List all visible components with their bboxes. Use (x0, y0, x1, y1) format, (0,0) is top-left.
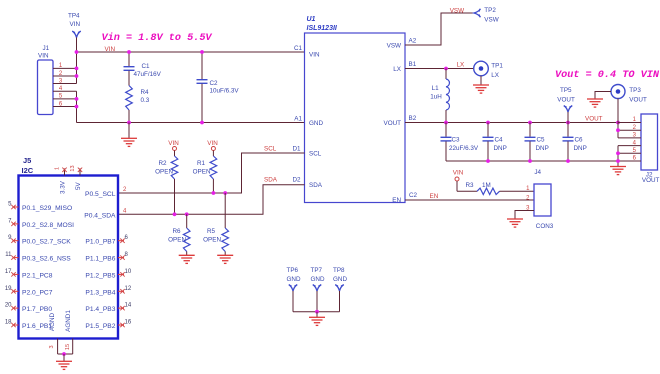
wire LX net (405, 68, 474, 70)
svg-text:R5: R5 (207, 228, 216, 235)
wire J2 pins 4-6 tie to ground (617, 146, 619, 167)
svg-text:C3: C3 (452, 137, 461, 144)
svg-text:J1: J1 (43, 45, 50, 52)
svg-text:OPEN: OPEN (168, 237, 186, 244)
ground (J5) (63, 354, 65, 361)
svg-text:B1: B1 (409, 61, 417, 68)
svg-text:P0.3_S2.6_NSS: P0.3_S2.6_NSS (22, 256, 71, 263)
svg-text:C1: C1 (142, 63, 151, 70)
svg-text:TP4: TP4 (68, 13, 80, 20)
svg-text:D2: D2 (292, 177, 301, 184)
svg-text:P0.4_SDA: P0.4_SDA (84, 212, 116, 219)
svg-text:P1.7_PB0: P1.7_PB0 (22, 306, 52, 313)
svg-text:VOUT: VOUT (629, 97, 647, 104)
wire SCL net (118, 153, 305, 193)
svg-text:C5: C5 (537, 137, 546, 144)
svg-text:13: 13 (70, 165, 76, 171)
wire TP6 (292, 291, 294, 312)
svg-text:TP2: TP2 (484, 7, 496, 14)
svg-text:VOUT: VOUT (557, 97, 575, 104)
svg-text:P0.5_SCL: P0.5_SCL (85, 191, 116, 198)
resistor R2 (174, 151, 176, 157)
svg-text:GND: GND (309, 120, 323, 127)
connector J5 I2C (19, 176, 119, 339)
svg-text:U1: U1 (307, 16, 316, 23)
svg-text:1uH: 1uH (430, 94, 442, 101)
svg-text:16: 16 (125, 320, 132, 326)
svg-text:DNP: DNP (494, 145, 507, 152)
svg-text:P0.1_S29_MISO: P0.1_S29_MISO (22, 205, 72, 212)
svg-text:VIN: VIN (38, 53, 49, 60)
test point TP4 (72, 31, 80, 37)
resistor R6 (186, 214, 188, 228)
svg-text:0.3: 0.3 (141, 97, 150, 104)
capacitor C1 (128, 52, 130, 66)
svg-text:J4: J4 (534, 169, 541, 176)
J5 top pin 1 (3.3V) (64, 169, 66, 176)
svg-text:C2: C2 (409, 192, 418, 199)
svg-text:VIN: VIN (105, 46, 116, 53)
wire TP5 to VOUT rail (567, 112, 569, 123)
junction dots GND rail (127, 121, 131, 125)
ground (TP1) (480, 76, 482, 85)
svg-text:I2C: I2C (22, 166, 34, 175)
connector J2 (641, 114, 658, 170)
svg-text:VSW: VSW (484, 17, 498, 24)
junction dots VIN rail (127, 50, 131, 54)
svg-text:VIN: VIN (168, 140, 179, 147)
svg-text:VIN: VIN (453, 170, 464, 177)
wire J2 pins 1-3 tie (617, 123, 619, 138)
svg-text:VSW: VSW (450, 8, 464, 15)
junction dot LX (444, 67, 448, 71)
svg-text:14: 14 (125, 303, 132, 309)
svg-text:CON3: CON3 (536, 223, 554, 230)
wire TP4 to VIN rail and J1 pins 1-3 (76, 38, 78, 84)
svg-text:SCL: SCL (264, 146, 277, 153)
svg-text:Vin = 1.8V to 5.5V: Vin = 1.8V to 5.5V (102, 32, 213, 44)
wire TP8 (339, 291, 341, 312)
capacitor C4 (487, 123, 489, 137)
svg-text:VOUT: VOUT (384, 120, 402, 127)
svg-text:C2: C2 (210, 80, 219, 87)
svg-text:R6: R6 (172, 228, 181, 235)
svg-text:19: 19 (5, 286, 12, 292)
ground (J2) (610, 166, 626, 168)
J2 pin stubs 1-6 (618, 122, 641, 124)
capacitor C2 (201, 52, 203, 79)
svg-text:R2: R2 (158, 160, 167, 167)
test point TP2 (474, 9, 480, 17)
svg-text:20: 20 (5, 303, 12, 309)
svg-text:ISL9123II: ISL9123II (307, 25, 338, 32)
svg-text:P1.4_PB3: P1.4_PB3 (85, 306, 115, 313)
svg-text:A2: A2 (409, 38, 417, 45)
svg-text:VIN: VIN (309, 52, 320, 59)
junction dots SCL/SDA (212, 191, 216, 195)
svg-text:C6: C6 (575, 137, 584, 144)
svg-text:1M: 1M (482, 182, 491, 189)
wire TP7 (316, 291, 318, 312)
svg-text:EN: EN (430, 193, 439, 200)
svg-text:LX: LX (457, 62, 466, 69)
test point TP5 (564, 106, 572, 112)
svg-text:P1.1_PB6: P1.1_PB6 (85, 256, 115, 263)
ground (R5) (217, 254, 233, 256)
wire CON3 pin 3 to ground (515, 211, 534, 220)
svg-text:9: 9 (8, 235, 12, 241)
resistor R1 (212, 151, 214, 157)
svg-text:3.3V: 3.3V (60, 180, 67, 194)
svg-text:22uF/6.3V: 22uF/6.3V (449, 145, 479, 152)
svg-text:VOUT: VOUT (642, 177, 660, 184)
svg-text:P2.0_PC7: P2.0_PC7 (22, 289, 53, 296)
svg-text:TP6: TP6 (287, 267, 299, 274)
svg-text:P0.2_S2.8_MOSI: P0.2_S2.8_MOSI (22, 222, 74, 229)
svg-text:A1: A1 (294, 116, 302, 123)
svg-text:2: 2 (123, 187, 127, 193)
capacitor C3 (445, 123, 447, 137)
svg-text:P1.2_PB5: P1.2_PB5 (85, 272, 115, 279)
svg-text:11: 11 (5, 252, 12, 258)
svg-text:P1.3_PB4: P1.3_PB4 (85, 289, 115, 296)
svg-text:5: 5 (8, 202, 12, 208)
svg-text:OPEN: OPEN (203, 237, 221, 244)
svg-text:10: 10 (125, 269, 132, 275)
capacitor C5 (529, 123, 531, 137)
wire J1 pins 4-6 to GND rail (76, 91, 78, 122)
svg-text:VIN: VIN (207, 140, 218, 147)
svg-text:VSW: VSW (387, 43, 401, 50)
svg-text:D1: D1 (292, 146, 301, 153)
svg-text:P1.5_PB2: P1.5_PB2 (85, 323, 115, 330)
svg-text:P0.0_S2.7_SCK: P0.0_S2.7_SCK (22, 239, 71, 246)
svg-text:18: 18 (5, 320, 12, 326)
wire EN net (405, 199, 534, 201)
svg-text:C4: C4 (495, 137, 504, 144)
ground (input section) (128, 123, 130, 139)
test point TP1 (474, 61, 489, 76)
test point TP8 (335, 285, 343, 291)
test point TP6 (289, 285, 297, 291)
svg-text:SDA: SDA (264, 177, 278, 184)
capacitor C6 (567, 123, 569, 137)
svg-text:R1: R1 (197, 160, 206, 167)
svg-text:R3: R3 (466, 182, 475, 189)
svg-text:VOUT: VOUT (585, 116, 603, 123)
svg-text:12: 12 (125, 286, 132, 292)
svg-text:AGND: AGND (49, 312, 56, 331)
ground (TP3) (587, 98, 603, 100)
svg-text:4: 4 (123, 208, 127, 214)
wire VSW net (405, 13, 474, 45)
wire VIN rail (77, 51, 305, 53)
wire TP6-TP8 tie (293, 311, 340, 313)
ground (TP6-8) (316, 312, 318, 318)
ground (CON3) (507, 218, 523, 220)
wire VOUT rail (B2) (405, 122, 641, 124)
svg-text:GND: GND (333, 276, 347, 283)
svg-text:AGND1: AGND1 (65, 310, 72, 332)
svg-text:P2.1_PC8: P2.1_PC8 (22, 272, 53, 279)
svg-text:C1: C1 (294, 45, 303, 52)
test point TP3 (611, 85, 625, 99)
svg-text:OPEN: OPEN (155, 169, 173, 176)
svg-text:P1.0_PB7: P1.0_PB7 (85, 239, 115, 246)
svg-text:P1.6_PB1: P1.6_PB1 (22, 323, 52, 330)
wire output ground rail (446, 160, 618, 162)
test point TP7 (313, 285, 321, 291)
svg-text:DNP: DNP (536, 145, 549, 152)
svg-text:SDA: SDA (309, 182, 323, 189)
inductor L1 (445, 69, 447, 80)
svg-text:B2: B2 (409, 115, 417, 122)
svg-text:TP1: TP1 (491, 63, 503, 70)
op-amp U1 ISL9123II (305, 33, 406, 203)
svg-text:J5: J5 (23, 156, 31, 165)
svg-text:7: 7 (8, 218, 12, 224)
svg-text:6: 6 (125, 235, 129, 241)
svg-text:2: 2 (526, 196, 530, 202)
svg-text:15: 15 (65, 344, 71, 350)
wire J5 AGND tie (58, 353, 73, 355)
svg-text:L1: L1 (432, 85, 440, 92)
connector J4 CON3 (534, 184, 551, 216)
svg-text:TP7: TP7 (311, 267, 323, 274)
svg-text:R4: R4 (141, 89, 150, 96)
wire SDA net (118, 185, 305, 215)
svg-text:5V: 5V (75, 181, 82, 190)
svg-text:17: 17 (5, 269, 12, 275)
svg-text:SCL: SCL (309, 151, 322, 158)
J5 top pin 13 (5V) (79, 169, 81, 176)
svg-text:LX: LX (491, 72, 500, 79)
svg-text:VIN: VIN (70, 21, 81, 28)
svg-text:TP3: TP3 (629, 87, 641, 94)
svg-text:47uF/16V: 47uF/16V (134, 71, 162, 78)
J5 bottom pin 15 AGND1 (72, 339, 74, 355)
svg-text:Vout = 0.4 TO VIN: Vout = 0.4 TO VIN (555, 70, 660, 81)
svg-text:8: 8 (125, 252, 129, 258)
svg-text:10uF/6.3V: 10uF/6.3V (210, 88, 240, 95)
resistor R5 (224, 193, 226, 228)
svg-text:DNP: DNP (574, 145, 587, 152)
resistor R4 (128, 71, 130, 86)
connector J1 (38, 60, 54, 115)
resistor R3 (456, 181, 458, 191)
svg-text:3: 3 (49, 345, 55, 348)
svg-text:GND: GND (287, 276, 301, 283)
junction dots VOUT rail (444, 121, 448, 125)
svg-text:TP8: TP8 (333, 267, 345, 274)
svg-text:EN: EN (392, 197, 401, 204)
wire TP3 to VOUT rail (617, 99, 619, 123)
node junctions on J1/TP4 verticals (75, 50, 79, 54)
J5 bottom pin 3 AGND (57, 339, 59, 355)
wire TP3 shield to ground (595, 92, 611, 100)
svg-text:GND: GND (311, 276, 325, 283)
svg-text:OPEN: OPEN (193, 169, 211, 176)
ground (R6) (179, 254, 195, 256)
J5 left pins (13, 206, 19, 208)
svg-text:LX: LX (393, 66, 402, 73)
J5 right NC pins (118, 240, 124, 242)
svg-text:1: 1 (55, 167, 61, 170)
J1 pin stubs 1-6 (53, 67, 77, 69)
svg-text:TP5: TP5 (560, 87, 572, 94)
wire GND rail (A1) (77, 122, 305, 124)
